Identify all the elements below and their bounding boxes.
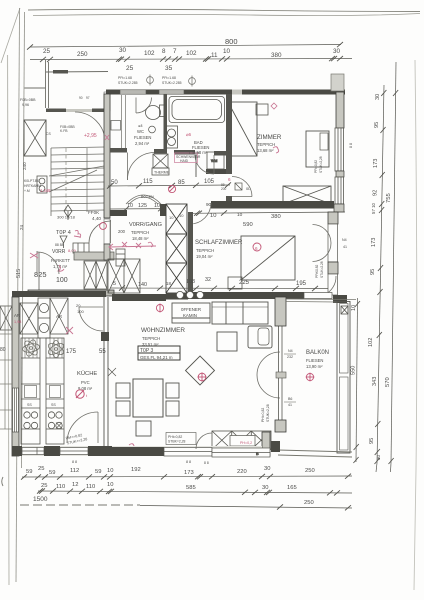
svg-text:250: 250: [304, 500, 314, 506]
red squiggle under parkett: [58, 265, 64, 271]
bad lower right wall piece: [206, 169, 226, 174]
svg-text:102: 102: [368, 338, 374, 347]
svg-text:12: 12: [72, 482, 78, 488]
shaft dim labels: [169, 213, 184, 220]
svg-text:800: 800: [225, 37, 238, 46]
red scribble top4: [74, 230, 81, 238]
svg-text:4,40: 4,40: [92, 216, 101, 221]
note fob-obb upper: [20, 98, 36, 107]
row2 labels: [41, 482, 297, 491]
stair treads: [51, 147, 104, 216]
vorraum lower dim labels: [113, 281, 171, 288]
entry door top3 leaf and arc: [89, 219, 111, 244]
svg-text:125: 125: [138, 203, 147, 209]
label parkett: [51, 258, 70, 269]
svg-text:200: 200: [221, 187, 227, 191]
svg-text:18: 18: [166, 281, 171, 286]
left survey line inner: [22, 12, 25, 468]
svg-text:⌀6: ⌀6: [186, 132, 192, 137]
label offener kamin: [181, 307, 201, 318]
svg-text:585: 585: [186, 485, 196, 491]
R0 labels: [351, 305, 358, 375]
top boundary wavy line 2: [33, 14, 420, 16]
svg-text:PFt=0,82: PFt=0,82: [314, 160, 318, 173]
svg-text:173: 173: [371, 238, 377, 247]
schlafzimmer right wall: [328, 212, 338, 224]
row3 labels: [33, 496, 314, 506]
svg-text:K.FB: K.FB: [60, 129, 68, 133]
svg-text:STUK=2.285: STUK=2.285: [162, 81, 182, 85]
red circle slash kueche: [76, 390, 88, 398]
svg-text:+2,95: +2,95: [84, 133, 97, 139]
svg-text:7: 7: [173, 48, 177, 55]
svg-text:STUK=2,28: STUK=2,28: [319, 156, 323, 173]
zimmer pillow: [256, 104, 268, 115]
schlafzimmer door gap arc: [190, 201, 211, 225]
dining chair bottom: [136, 421, 151, 436]
red mark bottom wall: [128, 444, 136, 450]
svg-text:103: 103: [186, 279, 195, 285]
bottom wall pier right end: [271, 441, 280, 452]
schlafzimmer bottom wall: [188, 292, 304, 299]
svg-text:30: 30: [262, 485, 268, 491]
bottom dim row3 line: [140, 504, 352, 510]
svg-text:CS: CS: [46, 132, 51, 136]
svg-text:HAID: HAID: [180, 159, 189, 163]
svg-text:TEPPICH: TEPPICH: [196, 248, 214, 253]
bottom wall pier 3: [88, 446, 112, 456]
svg-text:80: 80: [0, 347, 6, 353]
svg-text:STUK=2,28: STUK=2,28: [266, 404, 270, 422]
vorraum partition wall right piece: [160, 204, 166, 216]
bottom dim row2 line: [37, 488, 352, 495]
balcony window note rotated: [261, 404, 270, 422]
dining chair r2: [166, 401, 179, 416]
svg-text:HRTKAMM: HRTKAMM: [24, 184, 41, 188]
stair newel circles: [37, 176, 47, 193]
R2 labels: [385, 193, 392, 387]
top3 title box: [138, 346, 180, 360]
top detail dimension line: [30, 56, 352, 62]
svg-text:B: B: [256, 451, 259, 456]
balcony top right corner pier: [333, 295, 347, 303]
diamond table: [186, 356, 215, 385]
svg-text:PFt=1.68: PFt=1.68: [162, 76, 176, 80]
balcony bottom edge lines: [278, 450, 352, 457]
wc bad width labels 25 35: [126, 65, 173, 72]
vorraum dim line: [107, 182, 231, 188]
red circled 6 bed: [253, 243, 261, 251]
svg-text:0FFENER: 0FFENER: [181, 307, 201, 312]
zimmer window right 2: [335, 177, 344, 204]
svg-text:B0GEN: B0GEN: [141, 195, 154, 199]
bottom wall wz segment: [112, 447, 164, 456]
wall wc-bad: [164, 94, 168, 151]
top4 shaft crossed box 2: [96, 261, 107, 289]
svg-text:B6: B6: [288, 397, 292, 401]
electrical board vorraum: [116, 249, 125, 266]
svg-text:9,96: 9,96: [22, 103, 29, 107]
svg-text:30: 30: [333, 48, 341, 55]
page left edge line: [8, 55, 10, 585]
svg-text:110: 110: [86, 484, 95, 490]
bogen dim line: [110, 206, 166, 211]
svg-text:755: 755: [386, 193, 392, 203]
svg-text:115: 115: [143, 179, 153, 185]
svg-text:ZIMMER: ZIMMER: [257, 134, 282, 141]
svg-text:25: 25: [43, 48, 51, 55]
landing wall band: [46, 109, 104, 113]
balcony railing right: [337, 302, 350, 454]
kitchen left window: [13, 388, 19, 432]
schlaf dim line: [110, 285, 330, 291]
svg-text:10: 10: [169, 215, 174, 220]
svg-text:PFt=1.68: PFt=1.68: [118, 76, 132, 80]
bottom dim row3 dashed part: [20, 504, 140, 506]
svg-text:88 88: 88 88: [55, 243, 64, 247]
svg-text:1500: 1500: [33, 496, 48, 503]
svg-text:173: 173: [373, 159, 379, 168]
top4 wall band hatched: [74, 252, 114, 260]
svg-text:59: 59: [49, 470, 55, 476]
svg-text:165: 165: [287, 485, 297, 491]
page top-left fold diagonal: [1, 8, 20, 63]
svg-text:225: 225: [239, 280, 250, 286]
svg-text:FLIESEN: FLIESEN: [306, 358, 323, 363]
svg-text:10: 10: [127, 203, 133, 209]
red circle on kamin wall: [156, 304, 163, 313]
zimmer door fitting marks: [235, 183, 242, 190]
zimmer sublabel: [257, 142, 275, 153]
dining chair l2: [116, 401, 130, 416]
svg-text:95: 95: [370, 269, 376, 275]
svg-text:2,94 m²: 2,94 m²: [135, 141, 150, 146]
wc fixture symbols: [138, 124, 143, 128]
wall bad bottom right stub: [214, 151, 232, 156]
dim labels above schlaf wall: [206, 202, 281, 228]
svg-text:K0LPT.B0: K0LPT.B0: [24, 179, 39, 183]
dining chair l1: [116, 383, 130, 398]
bed foot box: [228, 277, 242, 289]
svg-text:240: 240: [22, 162, 27, 170]
svg-text:N4: N4: [288, 349, 293, 353]
schlafzimmer window right casements: [313, 224, 338, 262]
left survey line outer: [16, 8, 20, 582]
wc floor drain: [149, 126, 156, 133]
svg-text:100: 100: [77, 309, 84, 314]
svg-text:6: 6: [228, 177, 231, 182]
svg-text:570: 570: [385, 377, 391, 387]
svg-text:30: 30: [119, 47, 127, 54]
svg-text:10: 10: [351, 305, 357, 311]
svg-text:300 18/18: 300 18/18: [57, 215, 76, 220]
svg-text:T0P 4: T0P 4: [56, 230, 71, 236]
kitchen-wohnzimmer wall: [104, 297, 108, 455]
svg-text:380: 380: [271, 52, 282, 59]
level mark diamond ffok: [64, 205, 72, 220]
dim line below zimmer: [190, 210, 345, 215]
svg-text:KÜCHE: KÜCHE: [77, 370, 97, 377]
zimmer right wall mid stub: [336, 171, 344, 177]
balcony window lower: [279, 378, 283, 420]
svg-text:10: 10: [223, 48, 231, 55]
svg-text:90: 90: [206, 202, 212, 207]
red circled mark entry: [100, 223, 107, 230]
kitchen boiler column: [38, 298, 50, 338]
shaft kamin column: [166, 204, 187, 293]
svg-text:L.58 m: L.58 m: [189, 151, 200, 155]
zimmer right outer wall upper: [336, 92, 344, 128]
schlaf dim labels: [186, 277, 307, 287]
pink arrow row vorraum: [109, 242, 156, 250]
vorr gang sublabel: [118, 229, 149, 241]
svg-text:BALK0N: BALK0N: [306, 350, 329, 356]
svg-text:1.348: 1.348: [40, 188, 51, 193]
top4 door direction triangle: [60, 236, 67, 248]
wohnzimmer bottom right wall: [262, 432, 270, 456]
svg-text:18,48 m²: 18,48 m²: [132, 236, 149, 241]
right dim line R2: [389, 62, 399, 464]
top4 shaft crossed box 1: [84, 261, 96, 289]
bottom wall band base: [12, 446, 262, 456]
schlafzimmer balcony door right: [324, 274, 338, 295]
wz window 1: [164, 448, 212, 457]
svg-text:41: 41: [343, 245, 347, 249]
svg-text:90: 90: [79, 96, 83, 100]
svg-text:95: 95: [369, 438, 375, 444]
svg-text:92: 92: [373, 190, 379, 196]
svg-text:41: 41: [288, 403, 292, 407]
wc door top arc: [136, 98, 152, 114]
svg-text:102: 102: [186, 50, 197, 57]
svg-text:SS: SS: [51, 403, 56, 407]
vorraum dim labels: [111, 179, 215, 186]
top boundary wavy line 1: [28, 9, 420, 11]
svg-text:59: 59: [95, 469, 101, 475]
svg-text:V0RR: V0RR: [52, 249, 66, 255]
zimmer wardrobe crossed: [283, 186, 331, 204]
wc lintel note: [118, 76, 138, 85]
svg-text:195: 195: [296, 281, 307, 287]
svg-text:232: 232: [287, 355, 293, 359]
svg-text:112: 112: [70, 468, 79, 474]
R1 labels: [368, 94, 381, 460]
svg-text:515: 515: [16, 269, 22, 278]
top4 kitchen counter lines left edge: [0, 306, 12, 429]
svg-text:25: 25: [126, 65, 134, 72]
red cross stairwell: [30, 253, 38, 258]
svg-text:W0HNZIMMER: W0HNZIMMER: [141, 327, 185, 334]
red mark niche: [105, 135, 109, 140]
wall zimmer-schlafzimmer: [211, 201, 334, 209]
svg-text:0L: 0L: [246, 186, 251, 191]
kitchen door top arc: [79, 307, 103, 331]
svg-text:20: 20: [76, 303, 81, 308]
bottom wall pier 1: [12, 446, 22, 456]
stairhall door arc upper: [104, 92, 110, 111]
sofa table: [217, 332, 237, 351]
wz bottom door note box: [166, 433, 196, 445]
right dim line R1: [375, 85, 387, 464]
svg-text:PH=0,2: PH=0,2: [240, 441, 252, 445]
zimmer window right 1: [335, 128, 344, 171]
red target diamond: [197, 372, 206, 381]
red note schwenkbar: [176, 155, 201, 163]
svg-text:⊕8: ⊕8: [138, 124, 143, 128]
kueche sublabel: [78, 380, 93, 391]
armchair: [248, 326, 272, 348]
svg-text:AR: AR: [56, 314, 62, 319]
svg-text:192: 192: [131, 467, 141, 473]
kitchen counter strip right: [46, 338, 64, 444]
svg-text:30: 30: [376, 454, 381, 460]
sofa along top wall: [212, 302, 268, 324]
top4 bottom wall to kitchen: [28, 290, 114, 296]
balcony top edge lines: [286, 299, 356, 302]
svg-text:SS: SS: [27, 403, 32, 407]
kamin flue circles on wall: [176, 291, 203, 298]
bottom dim row1 line: [21, 474, 352, 480]
svg-text:105: 105: [204, 179, 215, 185]
window note right: [315, 261, 324, 278]
zimmer right wall lower stub: [334, 204, 344, 212]
svg-text:KAMIN: KAMIN: [183, 313, 197, 318]
svg-text:STUK=2.28: STUK=2.28: [320, 261, 324, 278]
bottom right vertical line ends: [376, 463, 391, 472]
svg-text:1,98: 1,98: [14, 320, 21, 324]
svg-text:32: 32: [205, 277, 211, 283]
shaft symbol circle 1: [147, 75, 154, 86]
balkon sublabel: [306, 358, 323, 369]
svg-text:11: 11: [211, 52, 218, 59]
dining chair r1: [166, 383, 179, 398]
balcony wall bottom piece: [275, 420, 286, 432]
sideboard crossed row: [212, 431, 271, 450]
x mark kitchen wall: [108, 368, 116, 376]
wc niche strip: [111, 95, 126, 148]
zimmer door leaf and arc lower: [232, 177, 252, 197]
stair run line diagonal: [49, 166, 104, 176]
svg-text:13,68 m²: 13,68 m²: [257, 148, 274, 153]
svg-text:FLIESEN: FLIESEN: [134, 135, 151, 140]
kitchen top wall: [12, 291, 106, 297]
svg-text:85: 85: [178, 180, 185, 186]
svg-text:8: 8: [162, 48, 166, 55]
svg-text:10: 10: [179, 213, 184, 218]
vorraum wardrobes crossed: [108, 259, 140, 293]
svg-text:PHt=0,82: PHt=0,82: [168, 435, 182, 439]
bad label: [192, 140, 209, 155]
svg-text:200: 200: [118, 229, 126, 234]
svg-text:10: 10: [154, 203, 160, 209]
wohnzimmer top wall left piece: [112, 294, 166, 301]
red mark zimmer: [273, 147, 279, 153]
bogen arch arcs: [126, 195, 161, 204]
stair hall top wall piece: [53, 70, 68, 74]
svg-text:PFtK0.82: PFtK0.82: [315, 264, 319, 278]
svg-text:13,90 m²: 13,90 m²: [306, 364, 323, 369]
kitchen left outer wall: [12, 297, 19, 456]
wall wc-bad bottom mid: [154, 149, 167, 154]
svg-text:N4: N4: [342, 238, 347, 242]
svg-text:59: 59: [26, 469, 32, 475]
dining table: [133, 379, 163, 417]
door labels small: [79, 96, 90, 100]
svg-text:825: 825: [34, 270, 47, 279]
svg-text:250: 250: [305, 468, 315, 474]
svg-text:343: 343: [372, 377, 378, 386]
svg-text:8 8: 8 8: [349, 143, 353, 148]
corridor left wall line: [195, 154, 197, 177]
top4 sideboard: [73, 243, 89, 253]
wall bad-zimmer: [226, 94, 232, 174]
svg-text:140: 140: [138, 282, 147, 288]
top4 kitchen crossed box left edge: [0, 306, 12, 330]
wall piece under shaft: [166, 293, 188, 300]
red x mark kitchen: [66, 327, 73, 334]
balcony wall top piece: [275, 297, 286, 326]
schlafzimmer balcony french door gap: [304, 293, 332, 299]
svg-text:25: 25: [41, 483, 47, 489]
svg-text:PHt=0,82: PHt=0,82: [261, 408, 265, 422]
top right corner stub outside: [331, 74, 344, 91]
svg-text:102: 102: [144, 50, 155, 57]
plant flower 1: [22, 339, 40, 358]
wall wc bottom: [110, 148, 127, 153]
schlafzimmer right wall mid: [328, 262, 338, 274]
wz window 2 wide: [212, 448, 270, 457]
schlafzimmer left wall: [188, 212, 193, 296]
wohnzimmer sublabel: [142, 336, 160, 347]
wz bottom door arc: [196, 433, 212, 449]
svg-text:220: 220: [237, 469, 247, 475]
svg-text:550: 550: [351, 366, 357, 375]
plant flower 2: [47, 341, 66, 358]
svg-text:SCHLAFZIMMER: SCHLAFZIMMER: [195, 240, 243, 246]
balcony glass door leaf: [279, 326, 283, 372]
zimmer bed: [228, 102, 257, 156]
balcony door arc: [257, 352, 280, 398]
svg-text:95: 95: [374, 122, 380, 128]
bad bathtub: [169, 97, 225, 123]
svg-text:THERME: THERME: [154, 171, 170, 175]
svg-text:110: 110: [56, 484, 65, 490]
wall below zimmer door: [226, 196, 232, 206]
bottom wall pier 2: [44, 446, 60, 456]
svg-text:8 8: 8 8: [186, 460, 191, 464]
svg-text:t: t: [86, 393, 88, 398]
svg-text:PVC: PVC: [81, 380, 90, 385]
red target balkon: [306, 373, 315, 382]
schlafzimmer bed: [241, 236, 295, 280]
kitchen tall cupboard crossed left: [20, 303, 38, 334]
svg-text:25: 25: [38, 466, 44, 472]
svg-text:STBK=2,28: STBK=2,28: [168, 440, 186, 444]
svg-text:WC: WC: [137, 129, 144, 134]
top overall dimension line 800: [27, 42, 343, 50]
svg-text:GES.FL 94,21 m: GES.FL 94,21 m: [140, 355, 173, 360]
row1 labels: [26, 466, 315, 476]
apartment top wall: [106, 90, 345, 95]
stairhall upper left double wall: [25, 60, 109, 108]
svg-text:35: 35: [165, 65, 173, 72]
kitchen ar cupboard crossed: [50, 298, 68, 334]
svg-text:10: 10: [107, 468, 113, 474]
wc door leaf and arc: [127, 153, 154, 181]
svg-text:30: 30: [375, 94, 381, 100]
balcony mid sill block: [276, 372, 286, 378]
vorraum partition wall left piece: [110, 210, 127, 216]
